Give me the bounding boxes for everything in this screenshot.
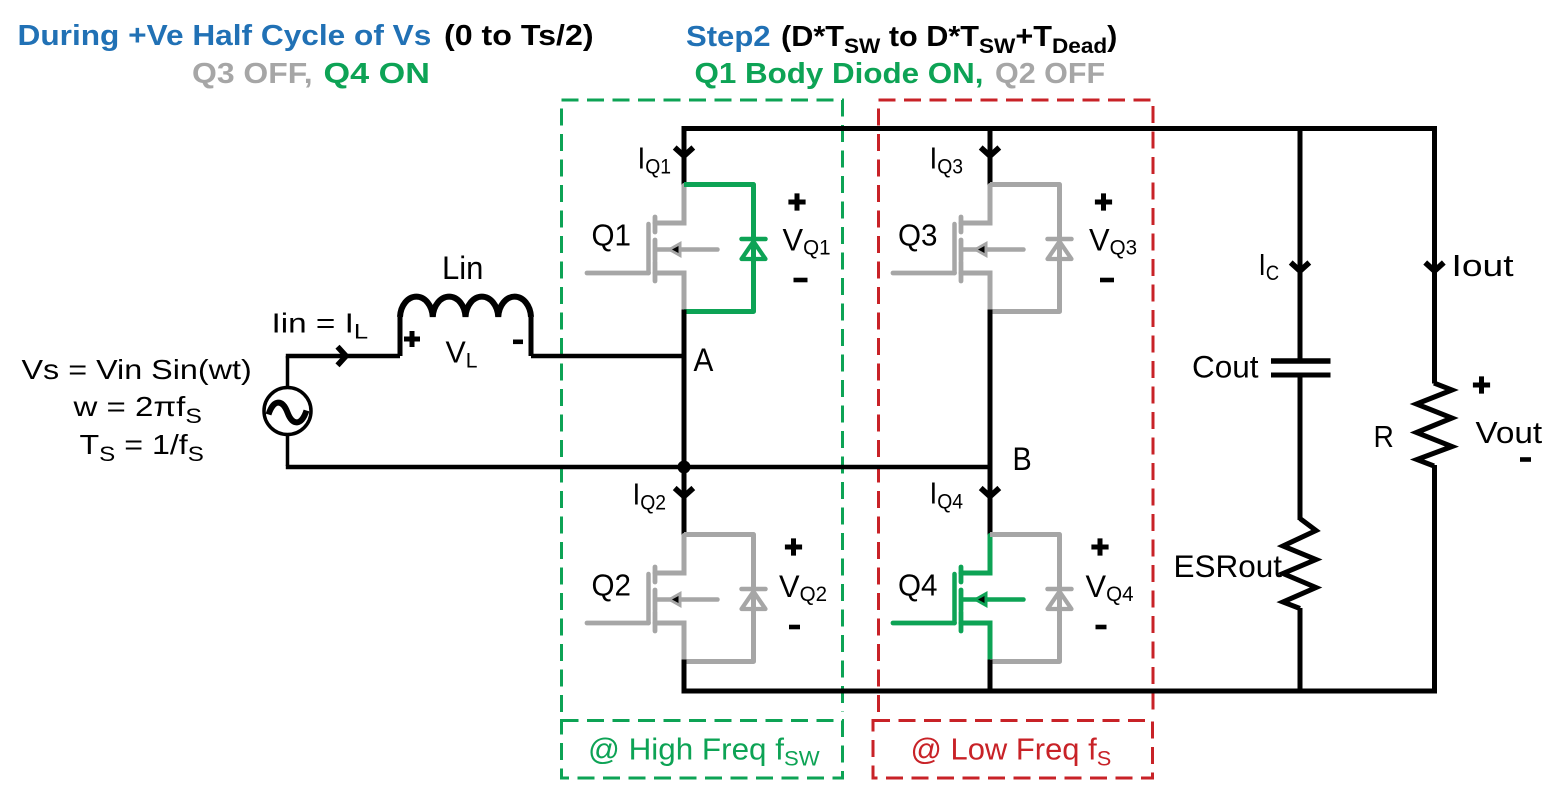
svg-text:(0 to Ts/2): (0 to Ts/2) [444,20,594,52]
svg-text:Step2: Step2 [686,21,771,53]
output polarity plus [1473,376,1490,393]
svg-text:During +Ve Half Cycle of Vs: During +Ve Half Cycle of Vs [18,20,432,51]
svg-text:Q3: Q3 [898,219,937,252]
svg-text:VQ4: VQ4 [1086,569,1134,606]
value label VQ1: minus sign [794,278,808,283]
wire: right leg, top rail to Q3 drain [988,126,993,186]
svg-text:VQ1: VQ1 [783,222,831,259]
value label VQ4: plus sign [1091,538,1108,555]
value label VQ4: minus sign [1096,625,1107,630]
svg-text:R: R [1374,420,1394,455]
svg-text:VL: VL [446,334,478,372]
svg-text:Vs = Vin Sin(wt): Vs = Vin Sin(wt) [22,355,252,386]
transistor Q2 (MOSFET symbol) [587,536,718,661]
dashed label box: @ Low Freq fS [873,721,1153,779]
wire: left leg, Q1 source through node A to mid rail [682,310,687,468]
body diode of Q4 [990,535,1072,662]
svg-text:IQ1: IQ1 [638,141,672,179]
wire: right leg, Q4 source to bottom rail [988,660,993,692]
wire: bottom rail [682,689,1438,694]
wire: left leg, top rail to Q1 drain [682,126,687,186]
wire: left leg, mid rail to Q2 drain [682,467,687,536]
svg-text:Vout: Vout [1476,415,1543,450]
body diode of Q3 [990,185,1072,312]
inductor Lin [400,297,531,356]
svg-text:B: B [1013,442,1032,478]
value label VQ3: plus sign [1095,193,1112,210]
svg-text:VQ2: VQ2 [779,569,827,606]
dashed region box (red, low-frequency leg Q3/Q4) [879,100,1154,712]
inductor polarity minus [513,339,523,344]
wire: inductor to node A [531,354,684,359]
value label VQ1: plus sign [788,193,805,210]
value label VQ2: minus sign [789,625,800,630]
svg-text:Cout: Cout [1192,349,1259,385]
svg-text:(D*TSW to D*TSW+TDead): (D*TSW to D*TSW+TDead) [781,21,1117,58]
current arrow IQ2 (down) [675,488,694,497]
resistor ESRout (zigzag) [1283,519,1316,609]
svg-text:w = 2πfS: w = 2πfS [72,391,201,427]
wire: ESRout to bottom rail [1298,608,1303,691]
svg-text:IC: IC [1259,248,1280,285]
current arrow IC (down) [1291,263,1310,272]
wire: Cout to ESRout [1298,378,1303,521]
svg-text:A: A [694,342,714,378]
wire: right leg, Q3 source through node B to Q4 drain [988,310,993,537]
svg-text:Q1: Q1 [592,219,631,252]
svg-text:Q2 OFF: Q2 OFF [995,58,1105,90]
wire: source top to inductor (input wire) [286,354,400,359]
body diode of Q1 [684,185,766,312]
current arrow Iin (rightward) [338,347,347,366]
resistor R (zigzag) [1417,383,1453,466]
svg-text:Q4: Q4 [898,569,937,602]
output polarity minus [1520,457,1531,462]
current arrow Iout (down) [1425,263,1444,272]
capacitor Cout [1271,361,1331,375]
svg-text:VQ3: VQ3 [1089,222,1137,259]
svg-text:IQ2: IQ2 [633,477,667,515]
svg-text:Q4 ON: Q4 ON [324,58,430,90]
junction dot at left leg / mid rail crossing [678,461,691,474]
current arrow IQ4 (down) [981,488,1000,497]
svg-text:Iin = IL: Iin = IL [272,307,369,344]
inductor polarity plus [404,331,420,347]
svg-text:Iout: Iout [1452,249,1515,283]
value label VQ2: plus sign [785,538,802,555]
transistor Q1 (MOSFET symbol) [587,186,718,311]
svg-text:@ Low Freq fS: @ Low Freq fS [911,732,1112,771]
wire: R to bottom rail [1432,465,1437,691]
svg-text:Q1 Body Diode ON,: Q1 Body Diode ON, [695,58,984,89]
dashed region box (green, high-frequency leg Q1/Q2) [562,100,843,712]
value label VQ3: minus sign [1100,278,1114,283]
transistor Q4 (MOSFET symbol) [893,536,1024,661]
AC source Vs (sine voltage source) [264,356,311,466]
svg-text:IQ3: IQ3 [930,141,964,179]
wire: top rail right corner down to R [1432,129,1437,384]
wire: top rail to Cout [1298,129,1303,359]
current arrow IQ3 (down) [981,148,1000,157]
svg-text:TS = 1/fS: TS = 1/fS [80,430,204,466]
current arrow IQ1 (down) [675,148,694,157]
wire: source bottom to node B (mid rail) [286,465,990,470]
transistor Q3 (MOSFET symbol) [893,186,1024,311]
svg-text:ESRout: ESRout [1174,548,1283,584]
svg-text:@ High Freq fSW: @ High Freq fSW [588,732,820,771]
dashed label box: @ High Freq fSW [562,721,843,779]
svg-text:Q2: Q2 [592,569,631,602]
body diode of Q2 [684,535,766,662]
svg-text:Lin: Lin [442,250,483,287]
svg-text:Q3 OFF,: Q3 OFF, [192,59,313,90]
svg-text:IQ4: IQ4 [930,476,964,514]
wire: top rail [682,126,1438,131]
wire: left leg, Q2 source to bottom rail [682,660,687,692]
